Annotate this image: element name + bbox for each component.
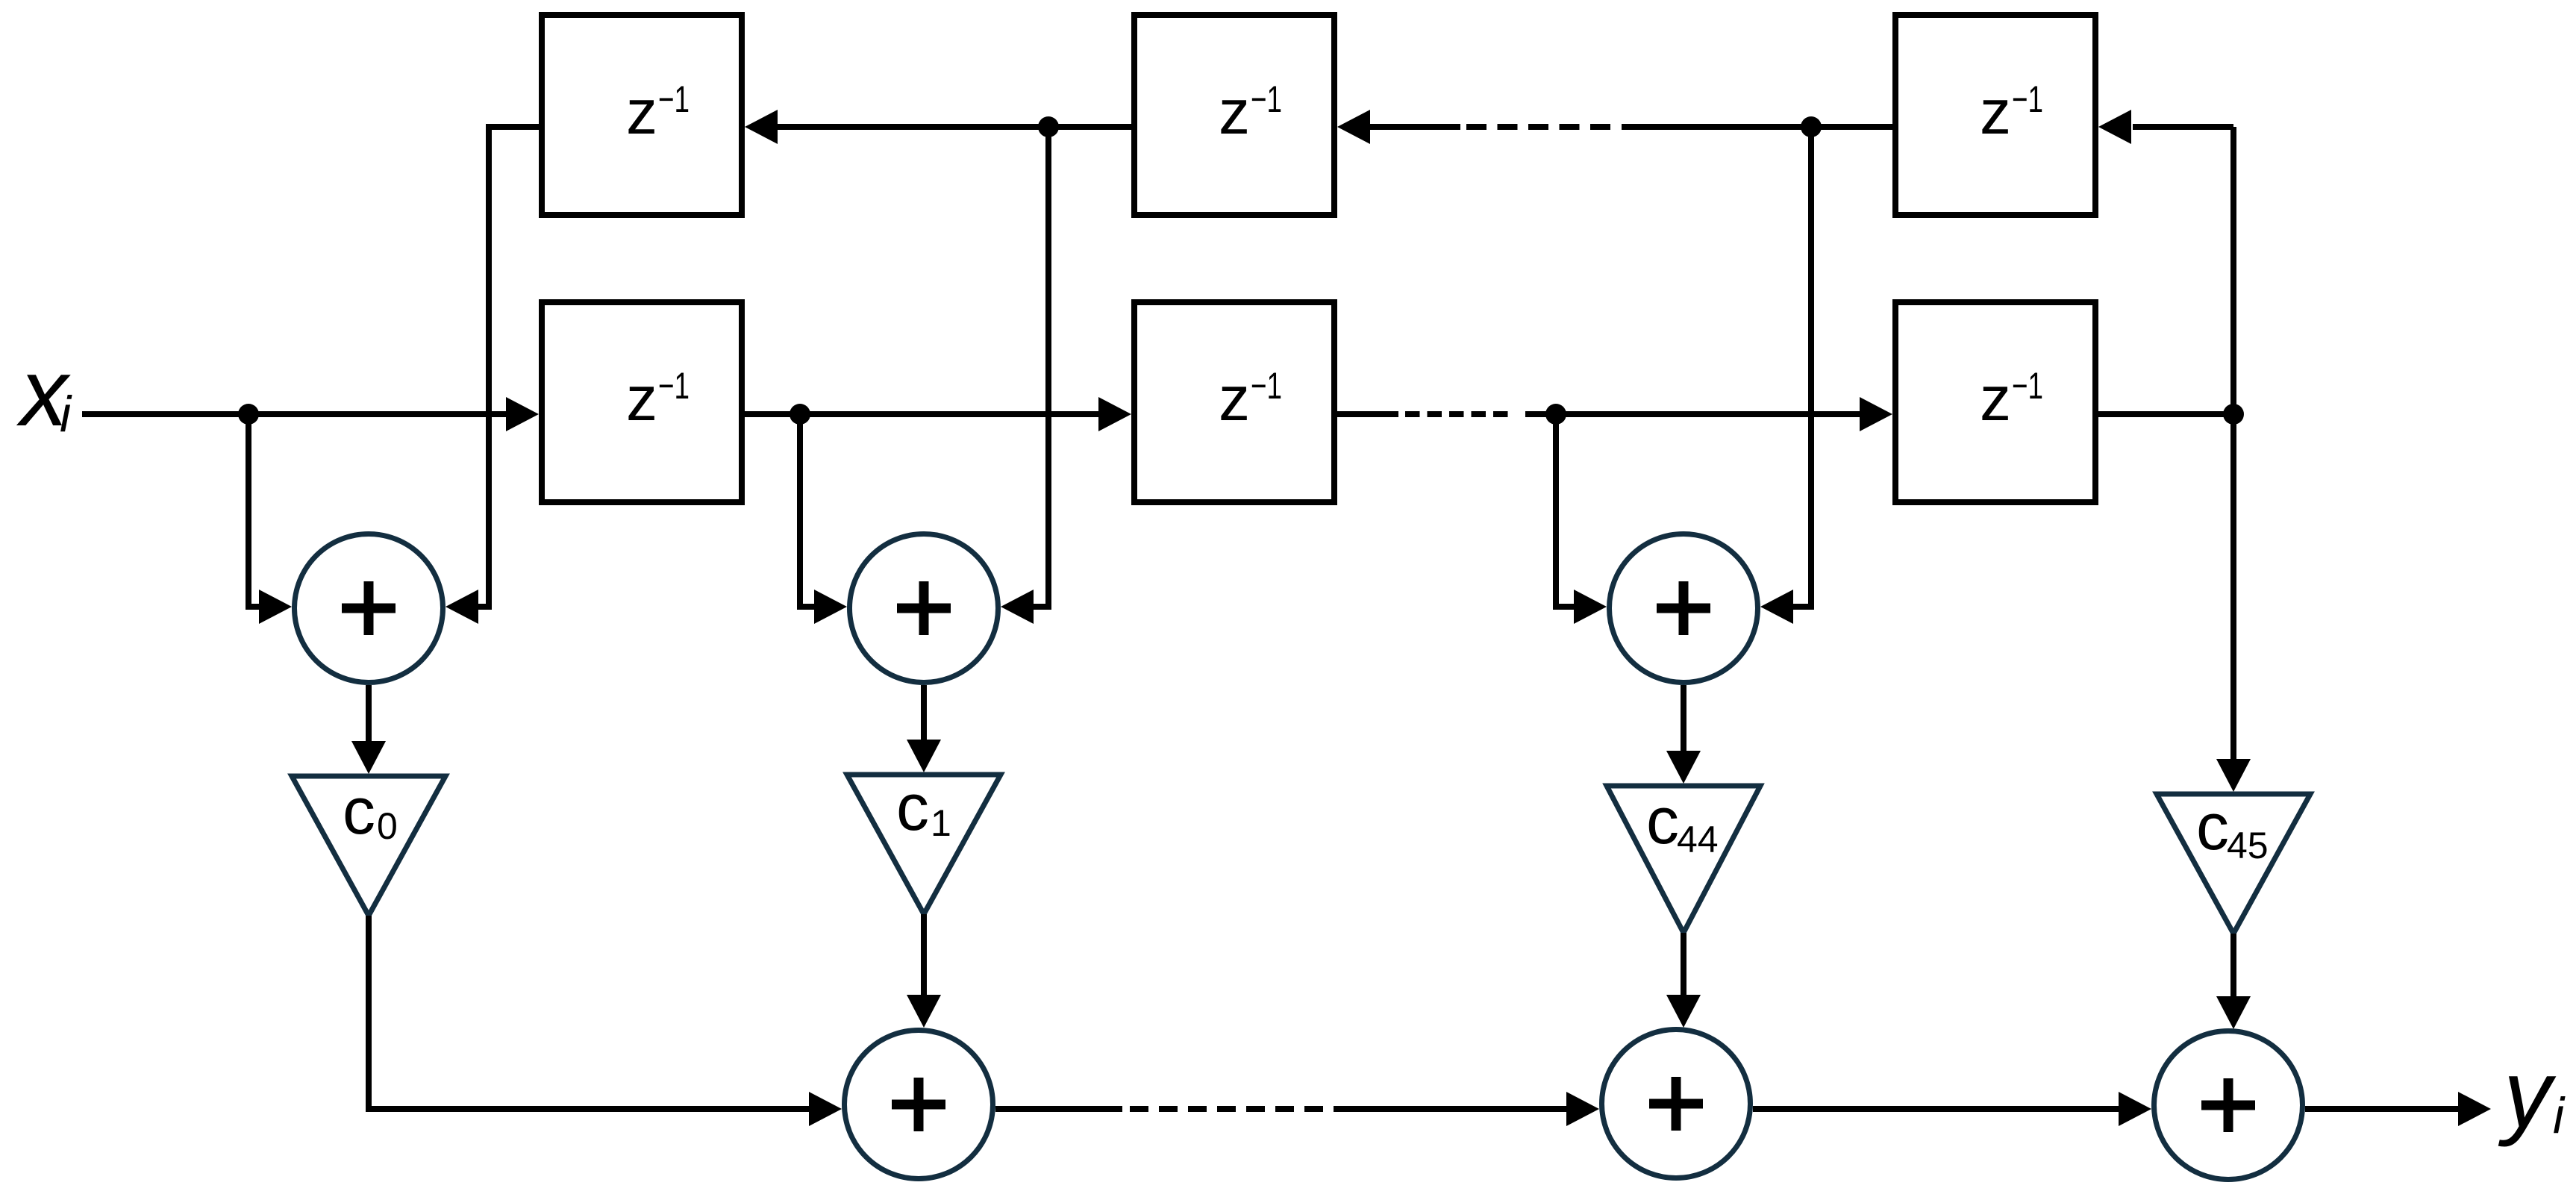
svg-text:44: 44 (1677, 819, 1719, 860)
svg-text:z: z (1219, 363, 1250, 434)
svg-text:45: 45 (2227, 825, 2269, 866)
svg-text:i: i (60, 386, 72, 443)
svg-text:−1: −1 (658, 365, 690, 407)
svg-text:z: z (626, 363, 657, 434)
svg-text:z: z (1980, 77, 2011, 147)
svg-text:−1: −1 (1251, 365, 1282, 407)
svg-text:−1: −1 (1251, 78, 1282, 120)
svg-text:−1: −1 (2012, 365, 2043, 407)
svg-text:z: z (1219, 77, 1250, 147)
svg-text:z: z (626, 77, 657, 147)
svg-text:y: y (2498, 1041, 2557, 1148)
svg-text:z: z (1980, 363, 2011, 434)
svg-text:c: c (896, 770, 929, 844)
svg-text:−1: −1 (2012, 78, 2043, 120)
svg-text:c: c (2196, 790, 2229, 863)
svg-text:i: i (2553, 1087, 2566, 1144)
svg-text:−1: −1 (658, 78, 690, 120)
svg-text:0: 0 (377, 805, 398, 847)
svg-text:c: c (1646, 784, 1679, 857)
svg-text:c: c (343, 774, 375, 848)
svg-text:1: 1 (931, 802, 951, 844)
